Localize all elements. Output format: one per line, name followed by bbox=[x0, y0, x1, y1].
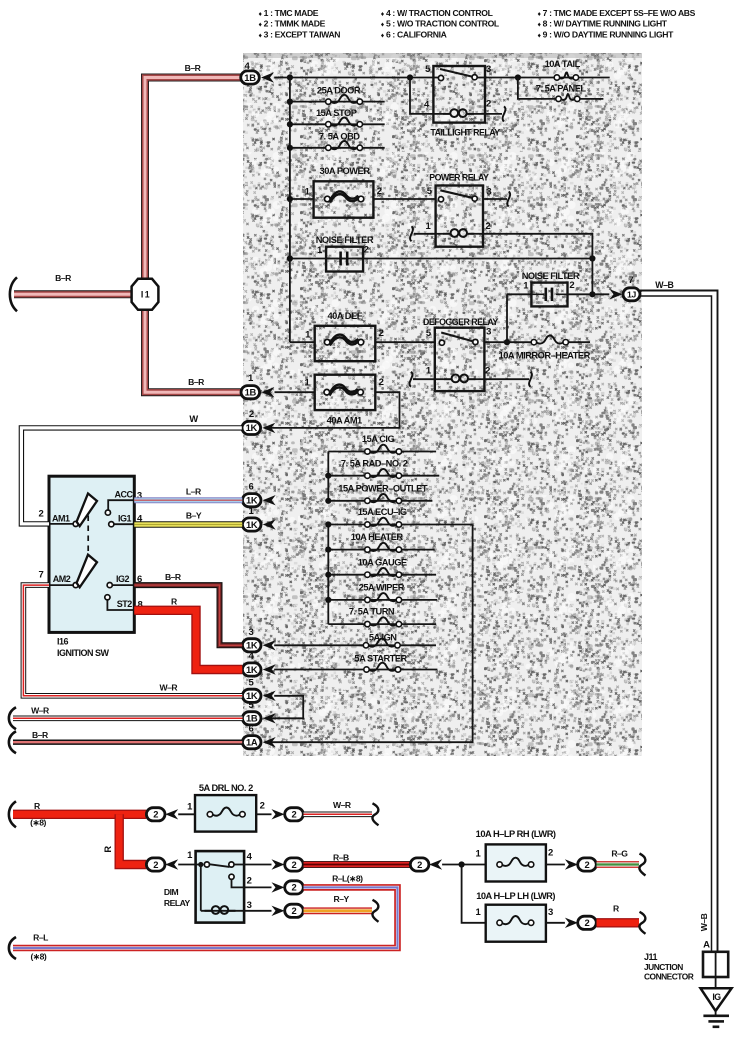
svg-text:2: 2 bbox=[292, 882, 297, 893]
svg-text:1B: 1B bbox=[244, 72, 256, 83]
svg-text:1: 1 bbox=[187, 801, 193, 812]
svg-text:2: 2 bbox=[249, 409, 254, 420]
svg-text:2: 2 bbox=[379, 328, 384, 339]
svg-text:ST2: ST2 bbox=[117, 599, 133, 609]
svg-text:W–B: W–B bbox=[699, 913, 709, 931]
svg-text:CONNECTOR: CONNECTOR bbox=[644, 972, 694, 982]
svg-text:40A AM1: 40A AM1 bbox=[327, 416, 362, 426]
svg-text:1A: 1A bbox=[246, 737, 258, 748]
svg-text:R–L: R–L bbox=[33, 932, 48, 942]
svg-text:2: 2 bbox=[153, 809, 158, 820]
svg-text:25A WIPER: 25A WIPER bbox=[359, 583, 405, 593]
svg-text:2: 2 bbox=[417, 859, 422, 870]
svg-text:R–B: R–B bbox=[333, 853, 349, 863]
svg-text:A: A bbox=[703, 940, 710, 951]
svg-text:W: W bbox=[189, 414, 198, 424]
svg-text:1K: 1K bbox=[246, 640, 258, 651]
svg-text:IG: IG bbox=[712, 992, 721, 1002]
svg-text:25A DOOR: 25A DOOR bbox=[317, 85, 361, 95]
svg-text:♦ 7 : TMC MADE EXCEPT 5S–FE W/: ♦ 7 : TMC MADE EXCEPT 5S–FE W/O ABS bbox=[538, 8, 696, 18]
svg-text:6: 6 bbox=[248, 482, 253, 493]
svg-text:2: 2 bbox=[292, 809, 297, 820]
svg-text:AM2: AM2 bbox=[53, 574, 71, 584]
svg-text:10A HEATER: 10A HEATER bbox=[351, 532, 404, 542]
svg-text:ACC: ACC bbox=[115, 490, 134, 500]
svg-text:R–L(∗8): R–L(∗8) bbox=[332, 874, 363, 884]
svg-text:2: 2 bbox=[260, 800, 265, 811]
svg-text:B–R: B–R bbox=[188, 377, 205, 387]
svg-text:10A H–LP RH (LWR): 10A H–LP RH (LWR) bbox=[476, 829, 556, 839]
svg-text:W–R: W–R bbox=[31, 706, 50, 716]
svg-text:4: 4 bbox=[247, 851, 253, 862]
svg-text:7. 5A OBD: 7. 5A OBD bbox=[319, 132, 360, 142]
svg-text:R: R bbox=[613, 903, 620, 913]
svg-text:I 1: I 1 bbox=[141, 289, 150, 299]
svg-text:B–R: B–R bbox=[55, 273, 72, 283]
svg-text:♦ 6 : CALIFORNIA: ♦ 6 : CALIFORNIA bbox=[381, 29, 447, 39]
svg-text:1: 1 bbox=[187, 850, 193, 861]
svg-text:2: 2 bbox=[585, 917, 590, 928]
svg-text:3: 3 bbox=[248, 627, 253, 638]
svg-text:B–R: B–R bbox=[32, 730, 49, 740]
svg-text:L–R: L–R bbox=[186, 487, 202, 497]
svg-text:1K: 1K bbox=[246, 422, 258, 433]
svg-text:1K: 1K bbox=[246, 664, 258, 675]
svg-text:5A STARTER: 5A STARTER bbox=[354, 654, 407, 664]
svg-text:5: 5 bbox=[427, 186, 433, 197]
svg-text:10A MIRROR–HEATER: 10A MIRROR–HEATER bbox=[499, 351, 591, 361]
svg-text:7. 5A PANEL: 7. 5A PANEL bbox=[536, 84, 587, 94]
svg-text:6: 6 bbox=[248, 724, 253, 735]
svg-text:AM1: AM1 bbox=[52, 514, 70, 524]
svg-text:2: 2 bbox=[377, 186, 382, 197]
svg-text:B–Y: B–Y bbox=[186, 511, 202, 521]
svg-text:(∗8): (∗8) bbox=[30, 818, 46, 828]
svg-text:2: 2 bbox=[153, 859, 158, 870]
svg-text:10A H–LP LH (LWR): 10A H–LP LH (LWR) bbox=[476, 891, 555, 901]
svg-text:10A TAIL: 10A TAIL bbox=[545, 59, 581, 69]
svg-text:7: 7 bbox=[38, 569, 43, 580]
svg-text:♦ 3 : EXCEPT TAIWAN: ♦ 3 : EXCEPT TAIWAN bbox=[259, 29, 341, 39]
svg-text:♦ 4 : W/ TRACTION CONTROL: ♦ 4 : W/ TRACTION CONTROL bbox=[381, 8, 493, 18]
svg-text:TAILLIGHT RELAY: TAILLIGHT RELAY bbox=[430, 127, 500, 137]
svg-text:3: 3 bbox=[486, 186, 491, 197]
svg-text:1: 1 bbox=[523, 281, 529, 292]
svg-text:2: 2 bbox=[38, 508, 43, 519]
svg-text:2: 2 bbox=[247, 876, 252, 887]
svg-text:R: R bbox=[103, 846, 113, 853]
svg-text:♦ 2 : TMMK MADE: ♦ 2 : TMMK MADE bbox=[259, 19, 326, 29]
svg-text:3: 3 bbox=[548, 907, 553, 918]
svg-text:♦ 1 : TMC MADE: ♦ 1 : TMC MADE bbox=[259, 8, 319, 18]
svg-text:40A DEF: 40A DEF bbox=[328, 311, 363, 321]
svg-text:15A STOP: 15A STOP bbox=[316, 108, 357, 118]
svg-text:1B: 1B bbox=[246, 713, 258, 724]
svg-text:15A POWER–OUTLET: 15A POWER–OUTLET bbox=[338, 483, 428, 493]
svg-text:3: 3 bbox=[486, 327, 491, 338]
svg-text:B–R: B–R bbox=[165, 572, 182, 582]
svg-text:DIM: DIM bbox=[164, 887, 179, 897]
svg-text:3: 3 bbox=[247, 900, 252, 911]
svg-text:2: 2 bbox=[486, 99, 491, 110]
svg-text:IG2: IG2 bbox=[116, 574, 130, 584]
svg-text:5A IGN: 5A IGN bbox=[369, 632, 397, 642]
svg-text:2: 2 bbox=[379, 377, 384, 388]
svg-text:1B: 1B bbox=[245, 387, 257, 398]
svg-text:B–R: B–R bbox=[185, 63, 202, 73]
svg-text:W–B: W–B bbox=[655, 280, 673, 290]
svg-text:W–R: W–R bbox=[333, 800, 352, 810]
svg-text:W–R: W–R bbox=[159, 683, 178, 693]
svg-text:IG1: IG1 bbox=[118, 514, 132, 524]
svg-text:♦ 8 : W/ DAYTIME RUNNING LIGHT: ♦ 8 : W/ DAYTIME RUNNING LIGHT bbox=[538, 19, 668, 29]
svg-text:2: 2 bbox=[292, 859, 297, 870]
svg-text:♦ 5 : W/O TRACTION CONTROL: ♦ 5 : W/O TRACTION CONTROL bbox=[381, 19, 499, 29]
svg-text:2: 2 bbox=[485, 365, 490, 376]
svg-text:2: 2 bbox=[485, 221, 490, 232]
svg-text:2: 2 bbox=[364, 245, 369, 256]
svg-text:NOISE FILTER: NOISE FILTER bbox=[316, 235, 374, 245]
svg-text:7. 5A RAD–NO. 2: 7. 5A RAD–NO. 2 bbox=[341, 458, 408, 468]
svg-text:7: 7 bbox=[628, 275, 633, 286]
svg-text:R: R bbox=[171, 596, 178, 606]
svg-text:R–G: R–G bbox=[611, 848, 628, 858]
svg-text:POWER RELAY: POWER RELAY bbox=[429, 173, 489, 183]
svg-text:2: 2 bbox=[569, 280, 574, 291]
svg-text:2: 2 bbox=[585, 859, 590, 870]
svg-text:R–Y: R–Y bbox=[333, 894, 349, 904]
svg-text:♦ 9 : W/O DAYTIME RUNNING LIGH: ♦ 9 : W/O DAYTIME RUNNING LIGHT bbox=[538, 29, 675, 39]
svg-text:JUNCTION: JUNCTION bbox=[644, 962, 683, 972]
svg-text:DEFOGGER RELAY: DEFOGGER RELAY bbox=[423, 317, 498, 327]
svg-text:10A GAUGE: 10A GAUGE bbox=[358, 557, 407, 567]
svg-text:1K: 1K bbox=[246, 519, 258, 530]
svg-text:2: 2 bbox=[292, 905, 297, 916]
svg-text:I16: I16 bbox=[57, 637, 69, 647]
svg-text:J11: J11 bbox=[644, 952, 658, 962]
svg-text:15A CIG: 15A CIG bbox=[362, 434, 395, 444]
svg-text:1K: 1K bbox=[246, 495, 258, 506]
svg-text:1: 1 bbox=[475, 907, 481, 918]
svg-text:30A POWER: 30A POWER bbox=[320, 166, 371, 176]
svg-text:1: 1 bbox=[305, 378, 311, 389]
svg-text:7. 5A TURN: 7. 5A TURN bbox=[349, 607, 395, 617]
svg-text:(∗8): (∗8) bbox=[31, 952, 47, 962]
svg-text:IGNITION SW: IGNITION SW bbox=[57, 648, 110, 658]
svg-text:2: 2 bbox=[548, 847, 553, 858]
svg-text:5A DRL NO. 2: 5A DRL NO. 2 bbox=[199, 783, 253, 793]
svg-text:3: 3 bbox=[486, 64, 491, 75]
svg-text:1: 1 bbox=[475, 848, 481, 859]
svg-text:15A ECU–IG: 15A ECU–IG bbox=[358, 507, 407, 517]
svg-text:RELAY: RELAY bbox=[164, 898, 191, 908]
svg-text:1J: 1J bbox=[627, 290, 636, 300]
